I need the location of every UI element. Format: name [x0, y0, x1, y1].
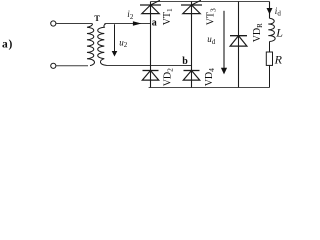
terminal bottom-left [51, 63, 56, 68]
svg-text:b: b [182, 56, 188, 67]
freewheeling branch wire [238, 2, 240, 88]
svg-text:a): a) [2, 38, 13, 50]
svg-text:i2: i2 [127, 9, 134, 21]
thyristor VT3 [181, 4, 202, 6]
svg-text:R: R [274, 52, 283, 66]
top rail [151, 1, 270, 3]
svg-text:T: T [94, 13, 100, 23]
load branch wire top [269, 2, 271, 19]
load branch wire bottom [269, 65, 271, 87]
resistor R [266, 52, 272, 65]
diode VD4 [184, 70, 200, 72]
svg-text:a: a [152, 18, 157, 29]
load branch wire mid [269, 42, 271, 53]
left bridge branch wire [150, 2, 152, 88]
terminal top-left [51, 21, 56, 26]
right bridge branch wire [191, 2, 193, 88]
svg-text:VD4: VD4 [204, 68, 216, 86]
arrow ud [223, 11, 225, 69]
arrow id [267, 8, 273, 14]
wire primary bottom [56, 65, 88, 67]
svg-text:VT3: VT3 [205, 8, 217, 25]
svg-text:ud: ud [207, 34, 216, 46]
svg-text:id: id [275, 6, 282, 18]
svg-text:L: L [275, 25, 283, 39]
bottom rail [149, 87, 270, 89]
transformer T primary winding [87, 24, 95, 66]
arrow i2 [133, 21, 142, 26]
freewheeling diode VDR [230, 35, 247, 37]
wire primary top [56, 23, 93, 25]
svg-text:VT1: VT1 [162, 8, 174, 25]
inductor L [268, 18, 275, 41]
wire secondary bottom to node b [106, 65, 192, 67]
transformer T secondary winding [98, 24, 107, 66]
svg-text:u2: u2 [119, 37, 128, 49]
svg-text:VD2: VD2 [162, 68, 174, 86]
wire secondary top to node a [105, 23, 151, 25]
diode VD2 [143, 70, 159, 72]
thyristor VT1 [140, 4, 161, 6]
svg-text:VDR: VDR [252, 23, 264, 42]
arrow u2 [114, 24, 116, 52]
